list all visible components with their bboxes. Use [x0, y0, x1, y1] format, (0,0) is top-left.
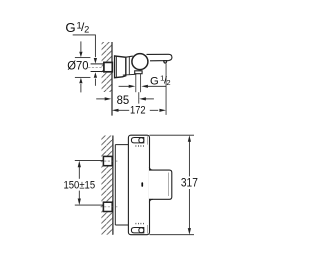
dim 150±15 line + arrows [78, 161, 81, 168]
bottom cap handle capsule [131, 228, 143, 233]
dim 150±15 lower extension line [75, 204, 104, 206]
bar below pipe [138, 92, 140, 103]
dim 150±15 upper extension line [75, 160, 104, 162]
top cap handle capsule [131, 138, 143, 143]
svg-text:85: 85 [117, 93, 130, 107]
escutcheon inner edge [116, 56, 118, 77]
stub centerline [88, 66, 114, 68]
svg-text:317: 317 [181, 175, 198, 189]
extension line from spout nub [165, 63, 167, 115]
escutcheon cone [115, 56, 126, 78]
union nut [104, 62, 112, 71]
dim Ø70 lower arrow [79, 78, 82, 84]
cap inner edge bottom [147, 225, 149, 234]
svg-text:G1/2: G1/2 [65, 20, 89, 35]
G1/2 hose row: right arrow + underline [141, 85, 148, 88]
svg-text:G1/2: G1/2 [150, 74, 171, 88]
outlet collar [135, 71, 142, 74]
svg-text:172: 172 [130, 105, 146, 117]
svg-text:150±15: 150±15 [64, 180, 96, 192]
svg-text:Ø70: Ø70 [67, 59, 88, 73]
mounting plate vertical edge [114, 145, 116, 225]
wall line (front view) [112, 136, 114, 235]
thermostat knob circle [132, 54, 148, 70]
dim 85 row: right arrow [139, 97, 146, 100]
body column [128, 135, 149, 235]
wall hatch (top view) [102, 42, 112, 92]
outlet pipe [135, 74, 137, 93]
upper nut centerline [100, 160, 117, 162]
spout [147, 54, 172, 61]
leader shoulder G1/2 top [73, 35, 96, 57]
spout nub (mousseur) [164, 61, 167, 63]
plate bottom edge [115, 224, 150, 226]
bottom cap handle ring [139, 228, 144, 233]
dim Ø70 lower extension line [75, 76, 91, 78]
body marker dot [141, 182, 143, 187]
dim 85 row: left arrow into wall [96, 98, 105, 100]
leader arrow down to stub top [94, 58, 97, 64]
top cap handle ring [139, 138, 144, 143]
body bridge vertical [128, 57, 130, 74]
body chin line [123, 73, 136, 76]
plate top edge [115, 144, 150, 146]
dim 317 line + arrows [188, 135, 191, 142]
dim 317 bottom extension line [150, 234, 195, 236]
pipe stub behind wall [91, 63, 104, 65]
dim 172 row: left arrow [112, 109, 119, 112]
cap inner edge top [147, 136, 149, 144]
lower union nut [103, 202, 112, 211]
body bridge top edge [126, 56, 133, 57]
outlet block inner highlight [168, 173, 170, 197]
upper union nut [103, 156, 112, 165]
top ear arc [149, 167, 153, 170]
dim Ø70 upper arrow [80, 41, 82, 51]
leader lower tail [94, 79, 96, 86]
lower nut centerline [100, 206, 117, 208]
leader lower arrow up to stub bottom [94, 72, 97, 78]
dim Ø70 upper extension line [75, 57, 91, 59]
wall line (top view) [111, 42, 113, 116]
wall hatch (front view) [101, 136, 112, 235]
bottom ear arc [149, 199, 153, 202]
G1/2 hose row: left arrow [119, 85, 129, 87]
bottom grip ticks [135, 223, 137, 224]
dim 172 row: right arrow [150, 109, 158, 111]
outlet block (protrusion) [149, 170, 172, 199]
top grip ticks [135, 145, 137, 146]
dim 317 top extension line [150, 134, 195, 136]
